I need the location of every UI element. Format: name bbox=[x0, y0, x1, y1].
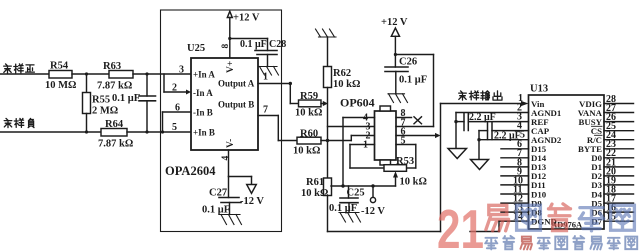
pin 7 wire OP604 to +12V bbox=[396, 126, 434, 128]
svg-text:V-: V- bbox=[226, 139, 236, 148]
capacitor C28 bbox=[255, 51, 277, 67]
svg-text:2: 2 bbox=[172, 83, 177, 94]
resistor R61 bbox=[324, 178, 332, 232]
resistor R64 bbox=[101, 129, 127, 137]
overline R/C bbox=[595, 134, 603, 136]
svg-text:+In B: +In B bbox=[193, 128, 215, 138]
U13 left pin names bbox=[531, 99, 562, 227]
svg-text:10 kΩ: 10 kΩ bbox=[293, 146, 320, 157]
svg-text:R64: R64 bbox=[105, 119, 124, 130]
svg-text:7.87 kΩ: 7.87 kΩ bbox=[98, 139, 133, 150]
resistor R60 bbox=[297, 137, 321, 144]
svg-text:6: 6 bbox=[175, 103, 180, 114]
U13 left pin stubs pins 6-13 bbox=[501, 149, 529, 212]
svg-text:0.1 μF: 0.1 μF bbox=[240, 39, 267, 50]
svg-text:10 kΩ: 10 kΩ bbox=[295, 108, 322, 119]
svg-text:+12 V: +12 V bbox=[381, 17, 408, 28]
resistor R62 bbox=[324, 37, 332, 88]
svg-text:R55: R55 bbox=[92, 95, 110, 106]
svg-text:Output B: Output B bbox=[218, 100, 254, 110]
svg-text:21: 21 bbox=[437, 198, 484, 252]
node 采样负 (sample-) label bbox=[4, 118, 34, 127]
capacitor C26 bbox=[385, 67, 408, 94]
resistor R55 bbox=[86, 74, 88, 93]
enclosure box OPA2604 stage bbox=[161, 10, 282, 232]
capacitor C25 bbox=[340, 186, 358, 213]
overline CS bbox=[592, 125, 603, 127]
capacitor 2.2uF CAP bbox=[477, 122, 528, 160]
pin 4 wire OP604 bbox=[343, 118, 375, 187]
op-amp U25 OPA2604 box bbox=[191, 58, 258, 150]
capacitor C27 bbox=[219, 177, 241, 215]
pin 1 Vin arrow into U13 bbox=[521, 101, 529, 106]
capacitor 2.2uF REF bbox=[454, 113, 528, 131]
svg-text:C28: C28 bbox=[269, 39, 286, 50]
pin 2 AGND1 wire to ground bbox=[456, 113, 529, 149]
node 采样输出 label bbox=[459, 91, 502, 100]
svg-text:C25: C25 bbox=[347, 188, 365, 199]
wire U25 pin4 to -12V bbox=[229, 150, 252, 185]
svg-text:10 kΩ: 10 kΩ bbox=[400, 177, 427, 188]
svg-text:1: 1 bbox=[363, 140, 368, 151]
svg-text:0.1 μF: 0.1 μF bbox=[399, 75, 427, 86]
pin 3 label bbox=[179, 65, 184, 76]
watermark tagline bbox=[485, 236, 637, 249]
svg-text:10 kΩ: 10 kΩ bbox=[333, 79, 360, 90]
svg-text:R62: R62 bbox=[333, 68, 351, 79]
svg-text:+In A: +In A bbox=[193, 70, 215, 80]
svg-text:4: 4 bbox=[221, 156, 231, 161]
wire +12V branch to C28 bbox=[228, 37, 267, 51]
svg-text:U13: U13 bbox=[530, 84, 548, 95]
pin 5 label bbox=[172, 122, 177, 133]
pin 2 label OP604 bbox=[366, 131, 371, 142]
svg-text:+12 V: +12 V bbox=[233, 13, 260, 24]
svg-text:3: 3 bbox=[179, 65, 184, 76]
wire R60 to pin2 of OP604 bbox=[321, 136, 375, 141]
ground chassis above R62 bbox=[316, 29, 337, 37]
pin 3 label OP604 bbox=[366, 122, 371, 133]
node junction B dot bbox=[145, 72, 148, 75]
svg-text:OP604: OP604 bbox=[340, 96, 375, 110]
svg-text:2 MΩ: 2 MΩ bbox=[92, 106, 118, 117]
wire Output A pin1 bbox=[258, 82, 299, 104]
pin 6 wire bbox=[163, 112, 192, 132]
node 采样正 (sample+) label bbox=[4, 64, 35, 73]
wire top input rail bbox=[0, 73, 49, 75]
node junction dot R55 bottom bbox=[85, 130, 88, 133]
svg-text:Output A: Output A bbox=[218, 79, 255, 89]
svg-text:0.1 μF: 0.1 μF bbox=[112, 93, 140, 104]
svg-text:C26: C26 bbox=[399, 57, 417, 68]
svg-text:R60: R60 bbox=[300, 129, 318, 140]
svg-text:U25: U25 bbox=[187, 43, 205, 54]
node junction dot cap bottom bbox=[145, 130, 148, 133]
U13 device name AD976A bbox=[551, 220, 583, 230]
wire R59 to node with arrow bbox=[321, 101, 328, 106]
pin 2 wire with arrow bbox=[164, 74, 191, 95]
wire R54 to R63 bbox=[72, 73, 109, 75]
U13 right pin stubs pins 28-15 bbox=[604, 104, 634, 222]
pin 14 DGND wire bbox=[470, 221, 529, 231]
svg-text:10 kΩ: 10 kΩ bbox=[301, 188, 328, 199]
capacitor C-in 0.1uF bbox=[146, 74, 148, 96]
terminal -12V circle bbox=[370, 186, 375, 203]
power +12V left bbox=[227, 11, 232, 58]
ground triangle AGND2 bbox=[471, 160, 489, 170]
svg-text:C27: C27 bbox=[209, 188, 227, 199]
wire feedback rail bottom bbox=[328, 104, 522, 232]
svg-text:10 MΩ: 10 MΩ bbox=[45, 80, 76, 91]
op-amp U13b OP604 package bbox=[375, 106, 397, 165]
resistor R59 bbox=[299, 100, 322, 107]
watermark logo glyphs bbox=[486, 204, 634, 231]
svg-text:OPA2604: OPA2604 bbox=[165, 164, 216, 178]
watermark 21 red bbox=[437, 198, 484, 252]
U13 right pin names bbox=[578, 99, 603, 227]
svg-text:8: 8 bbox=[221, 44, 231, 49]
wire main vertical node (R62/R59/R60/R61) bbox=[326, 88, 375, 179]
svg-text:R59: R59 bbox=[300, 91, 318, 102]
svg-text:1: 1 bbox=[263, 72, 268, 83]
resistor R63 bbox=[109, 71, 133, 79]
wire R63 to U25 pin3 bbox=[133, 73, 191, 75]
svg-text:-In B: -In B bbox=[193, 108, 213, 118]
ground chassis C25 bbox=[339, 213, 361, 223]
wire bottom input rail bbox=[0, 131, 101, 133]
pin 5 wire OP604 to R53 bbox=[396, 145, 416, 169]
node junction A dot bbox=[85, 72, 88, 75]
pin 8 wire OP604 no-connect X bbox=[396, 117, 422, 124]
wire R64 to U25 pin5 bbox=[127, 131, 191, 133]
ground triangle AGND1 bbox=[448, 149, 467, 159]
pin 1 wire OP604 to R53 bbox=[350, 145, 384, 169]
pin 5 AGND2 wire bbox=[479, 139, 529, 141]
pin 6 wire OP604 output bbox=[396, 133, 441, 138]
svg-text:5: 5 bbox=[172, 122, 177, 133]
wire Output B pin7 bbox=[258, 116, 297, 141]
svg-text:R61: R61 bbox=[306, 177, 324, 188]
power +12V middle bbox=[391, 28, 433, 127]
svg-text:R63: R63 bbox=[103, 61, 121, 72]
ADC U13 box bbox=[529, 95, 605, 229]
svg-text:5: 5 bbox=[401, 135, 406, 146]
svg-text:V+: V+ bbox=[226, 61, 236, 73]
resistor R54 bbox=[49, 71, 72, 79]
svg-text:-In A: -In A bbox=[193, 88, 213, 98]
svg-text:R53: R53 bbox=[396, 156, 414, 167]
svg-text:-12 V: -12 V bbox=[361, 206, 385, 217]
ground chassis C27 bbox=[220, 215, 242, 225]
svg-text:7: 7 bbox=[263, 105, 268, 116]
svg-text:R54: R54 bbox=[50, 61, 69, 72]
power -12V left triangle bbox=[247, 185, 257, 194]
potentiometer R53 bbox=[384, 165, 407, 186]
ground chassis C26 bbox=[388, 94, 408, 103]
svg-text:0.1 μF: 0.1 μF bbox=[202, 205, 230, 216]
ground chassis C28 bbox=[259, 67, 279, 76]
svg-text:7.87 kΩ: 7.87 kΩ bbox=[97, 81, 132, 92]
node junction dot pin6 link bbox=[161, 130, 164, 133]
wire -12V net middle bbox=[331, 184, 396, 187]
svg-text:-12 V: -12 V bbox=[240, 196, 264, 207]
